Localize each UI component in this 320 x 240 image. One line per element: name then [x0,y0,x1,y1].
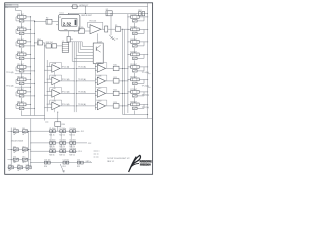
svg-text:R43 1k: R43 1k [69,134,75,136]
wire stage 2 left stub [16,28,18,30]
op-amp U3A [52,65,60,73]
wire R5 to bus [121,28,128,30]
wire right spine segment 10 [134,35,136,40]
wire bottom row 3 [31,150,78,152]
diode D15 [22,158,27,161]
resistor network RN2 [46,44,51,48]
wire U1 bottom pin [68,31,70,37]
op-amp U3C [52,90,60,98]
wire right spine segment 11 [134,48,136,53]
wire stage 13 right loop [137,70,144,72]
capacitor C8 pair [50,150,53,153]
wire chain spine segment 6 [20,85,22,90]
wire stage 6 left stub [16,78,18,80]
svg-text:D11: D11 [22,128,25,130]
wire stage 3 lower tap [24,45,34,47]
wire stage 16 to right bus [139,103,148,105]
wire left chain bottom [20,110,22,115]
svg-text:C8 100n: C8 100n [49,148,55,150]
svg-text:C1 100n: C1 100n [49,128,55,130]
wire stage 15 to right bus [139,91,148,93]
zener D3 diagonal [109,35,115,41]
capacitor C10 [8,166,13,169]
wire mid vertical [110,14,112,35]
svg-text:D10: D10 [13,128,16,130]
wire chain spine segment 2 [20,35,22,40]
wire stage 1 left stub [16,16,18,18]
wire U2A out [108,28,116,30]
wire U4C fb [96,87,107,89]
svg-text:xxxx: xxxx [64,29,68,31]
svg-text:C3 100n: C3 100n [69,128,75,130]
wire R30 down [57,126,59,131]
wire rail drop [85,7,87,14]
svg-text:GND x: GND x [86,161,91,163]
resistor R22 [113,91,119,95]
svg-text:C12: C12 [26,164,29,166]
wire row bl1 [8,130,31,132]
svg-text:TP-3 (A): TP-3 (A) [6,71,14,74]
wire U3B out [60,80,74,82]
wire section divider [5,118,153,120]
wire R2 left [35,21,46,23]
svg-text:xxx xx: xxx xx [94,154,99,156]
svg-text:D2: D2 [106,9,108,11]
wire U4C in+ [96,91,98,93]
wire R3 to J1 [68,41,70,44]
wire R21 to chain [119,80,128,82]
wire R2 to U1 [52,21,58,23]
logo wordmark [139,160,151,162]
svg-text:U1 xx: U1 xx [60,12,64,14]
wire U1 top pin [68,14,70,15]
wire feed right row 2 [76,80,95,82]
wire stage 11 to right bus [139,41,148,43]
wire row bl2 [8,149,31,151]
resistor R20 [113,66,119,70]
wire stage 2 lower tap [24,32,34,34]
svg-text:Sxxxxxxx: Sxxxxxxx [6,5,13,7]
wire stage 16 left stub [128,103,131,105]
svg-text:R2: R2 [46,18,48,20]
wire stage 1 to left bus [26,16,31,18]
wire U4A in- [96,69,98,71]
wire stage 12 right loop [137,57,144,59]
wire U3C feedback [50,87,62,89]
wire stage 5 left stub [16,66,18,68]
svg-text:1N: 1N [22,134,24,136]
wire U3D out [60,105,74,107]
wire harness drop B [75,55,77,112]
svg-text:TP-31 (A): TP-31 (A) [78,66,86,69]
wire U3C out [60,92,74,94]
logo mark [129,155,141,172]
wire right spine segment 14 [134,85,136,90]
wire U3D feedback [50,99,62,101]
wire stage 3 left stub [16,41,18,43]
wire U3B feedback [50,74,62,76]
op-amp U3D [52,102,60,110]
svg-text:RN2 2k2: RN2 2k2 [46,42,53,44]
svg-text:D15: D15 [22,157,25,159]
wire stage 10 right loop [137,32,144,34]
wire chain spine segment 1 [20,23,22,28]
svg-text:J1: J1 [62,41,64,43]
svg-text:1N: 1N [13,162,15,164]
wire stage 11 right loop [137,45,144,47]
wire U4A fb [96,62,107,64]
wire U3A out [60,67,74,69]
wire stage 9 right loop [137,20,144,22]
svg-text:C6 100n: C6 100n [69,140,75,142]
wire stage 12 to right bus [139,53,148,55]
svg-text:5CCW 11.04-1B SHT 1/2: 5CCW 11.04-1B SHT 1/2 [107,158,130,160]
svg-text:C9 100n: C9 100n [59,148,65,150]
diode D14 [13,158,18,161]
svg-text:TP-16(A): TP-16(A) [142,93,150,96]
wire row2-row3 links [50,144,52,150]
diode D13 [22,148,27,151]
wire R22 to chain [119,92,128,94]
svg-text:1N: 1N [26,170,28,172]
wire U4B out [106,80,114,82]
resistor R5 [115,27,121,31]
diode D2 on top net [106,11,112,16]
svg-text:R50: R50 [44,166,47,168]
wire stage 7 lower tap [24,95,34,97]
op-amp U4C [97,90,105,98]
wire U4D in+ [96,103,98,105]
wire R20 to chain [119,67,128,69]
svg-text:Q17: Q17 [98,41,102,43]
ground symbol [60,164,64,173]
wire stage 10 to right bus [139,28,148,30]
wire U3A feedback [50,62,62,64]
wire U3B in- [45,82,52,84]
svg-text:xxxxx x: xxxxx x [94,151,100,153]
capacitor C13 pair [44,161,47,164]
svg-text:R42 1k: R42 1k [59,134,65,136]
svg-text:R51: R51 [63,166,66,168]
wire stage 7 to left bus [26,91,31,93]
svg-text:R20: R20 [113,64,116,66]
svg-text:RV1: RV1 [138,10,141,12]
wire U4D in- [96,107,98,109]
wire U4A in+ [96,66,98,68]
wire U2A feedback [88,21,103,23]
svg-text:R23: R23 [113,102,116,104]
wire U3B bottom tap [54,84,56,88]
svg-text:D12: D12 [13,146,16,148]
wire U4C in- [96,94,98,96]
wire stage 11 left stub [128,41,131,43]
svg-text:TP-32 (A): TP-32 (A) [78,78,86,81]
svg-text:C15: C15 [77,159,80,161]
svg-text:J2-2: J2-2 [88,143,92,145]
wire RN2 right [57,45,63,47]
wire stage 3 to left bus [26,41,31,43]
diode D10 [13,130,18,133]
wire stage 2 to left bus [26,28,31,30]
svg-text:C11: C11 [17,164,20,166]
wire stage 8 lower tap [24,107,34,109]
diode D11 [22,130,27,133]
wire row bl4 [8,167,31,169]
wire harness drop A [73,58,75,112]
wire row1-row2 links [50,133,52,142]
wire right spine segment 13 [134,73,136,78]
wire stage 12 left stub [128,53,131,55]
wire bottom row 1 [31,130,80,132]
wire stage 4 to left bus [26,53,31,55]
wire U2A to module [97,33,99,43]
svg-text:xxxx: xxxx [45,121,49,123]
wire stage 4 lower tap [24,57,34,59]
wire right spine segment 12 [134,60,136,65]
svg-text:R48 1k: R48 1k [49,154,55,156]
wire U4C out [106,92,114,94]
IC module U1 [58,15,80,31]
op-amp U4B [97,77,105,85]
svg-text:C4 100n: C4 100n [49,140,55,142]
wire right inner bus [147,3,149,119]
wire stage 8 to left bus [26,103,31,105]
wire stage 5 lower tap [24,70,34,72]
wire U3C in+ [47,91,52,93]
wire U4D fb [96,99,107,101]
border frame [5,3,153,175]
wire right chain bus [127,14,129,113]
wire left bus B [34,21,36,116]
wire chain spine segment 3 [20,48,22,53]
wire stage 7 left stub [16,91,18,93]
wire feed right row 1 [76,67,95,69]
svg-text:C5 100n: C5 100n [59,140,65,142]
wire U3A in- [45,69,52,71]
svg-text:LM7805CT: LM7805CT [79,5,89,7]
wire row bl3 [8,159,31,161]
wire drop to bottom [57,112,59,122]
connector J1 [62,43,68,53]
svg-text:R41 1k: R41 1k [49,134,55,136]
diode D12 [13,148,18,151]
capacitor C20 output [105,26,108,32]
op-amp U4A [97,65,105,73]
capacitor C5 pair [60,142,63,145]
svg-text:R3: R3 [71,39,73,41]
node TP-4 stub [15,86,31,88]
wire U3C in- [45,94,52,96]
wire bottom bus left [30,119,32,168]
wire stage 6 lower tap [24,82,34,84]
capacitor C9 pair [60,150,63,153]
wire Q17 bottom [97,63,99,65]
op-amp U4D [97,102,105,110]
svg-text:xx xxx: xx xxx [94,157,99,159]
wire RN1 link [35,42,38,44]
wire stage 13 to right bus [139,66,148,68]
wire stage 9 to right bus [139,16,148,18]
wire R23 to chain [119,105,128,107]
wire U3C bottom tap [54,96,56,100]
resistor R2 pre-regulator [46,19,52,24]
wire R4 in [74,30,78,32]
wire chain spine segment 4 [20,60,22,65]
svg-text:1N: 1N [22,152,24,154]
svg-text:1N: 1N [13,152,15,154]
svg-text:AIRBORNE: AIRBORNE [140,160,153,163]
svg-text:1N: 1N [22,162,24,164]
capacitor C2 pair [60,130,63,133]
op-amp U2A [90,25,101,34]
wire right chain bottom [134,110,136,114]
svg-text:TP-14 (A): TP-14 (A) [62,103,70,106]
svg-text:R21: R21 [113,77,116,79]
wire stage 15 left stub [128,91,131,93]
capacitor C6 pair [70,142,73,145]
wire stage 14 left stub [128,78,131,80]
wire bottom row 4 [31,162,92,164]
svg-text:C14 10n: C14 10n [63,159,69,161]
svg-text:C9 100n: C9 100n [69,148,75,150]
resistor R23 [113,104,119,108]
wire stage 6 to left bus [26,78,31,80]
wire stage 8 left stub [16,103,18,105]
capacitor C3 pair [70,130,73,133]
svg-text:1N4148 1N4148: 1N4148 1N4148 [11,140,23,142]
svg-text:TP-11 (A): TP-11 (A) [62,66,70,69]
capacitor C14 pair [63,161,66,164]
svg-text:FREEDOM: FREEDOM [140,165,151,167]
wire stage 1 lower tap [24,20,34,22]
wire U3D bottom tap [54,109,56,113]
wire right spine segment 9 [134,23,136,28]
wire feed right row 3 [76,92,95,94]
wire stage 14 right loop [137,82,144,84]
svg-text:TP-4 (A): TP-4 (A) [6,85,14,88]
svg-text:RN1: RN1 [37,39,41,41]
wire feed right row 4 [76,105,95,107]
wire bottom-left bus [10,128,12,168]
svg-text:TP-17(A): TP-17(A) [142,106,150,109]
wire stage 5 to left bus [26,66,31,68]
svg-text:TP-34 (A): TP-34 (A) [78,103,86,106]
capacitor C15 pair [77,161,80,164]
wire bottom-left bus2 [28,131,30,167]
wire stage 9 left stub [128,16,131,18]
wire bus vertical right-mid [122,29,124,114]
wire opamp input bus B [46,60,48,112]
wire stage 10 left stub [128,28,131,30]
wire U4B in- [96,82,98,84]
svg-text:C2 100n: C2 100n [59,128,65,130]
svg-text:2.32: 2.32 [63,21,72,26]
wire harness feed [69,41,83,43]
wire U4B in+ [96,78,98,80]
op-amp U3B [52,77,60,85]
capacitor C1 pair [50,130,53,133]
wire stage 15 right loop [137,95,144,97]
svg-text:R49 1k: R49 1k [59,154,65,156]
wire U4A out [106,67,114,69]
varistor RV1 [139,12,142,16]
svg-text:R22: R22 [113,89,116,91]
svg-text:TP-13 (A): TP-13 (A) [62,91,70,94]
fuse F1 on rail [72,5,77,8]
svg-text:C10: C10 [8,164,11,166]
node TP-3 stub [15,73,31,75]
wire chain spine segment 7 [20,98,22,103]
svg-text:D3: D3 [116,39,118,41]
svg-text:U1: U1 [59,17,61,19]
wire bottom row 2 [31,142,87,144]
wire right spine segment 15 [134,98,136,103]
svg-text:1N4148 SMT: 1N4148 SMT [81,15,93,17]
capacitor C11 [17,166,22,169]
wire stage 4 left stub [16,53,18,55]
wire stage 13 left stub [128,66,131,68]
resistor R4 [78,29,84,33]
title table top-left [5,4,18,8]
wire R4 out [85,30,90,32]
svg-text:C13 10n: C13 10n [44,159,50,161]
resistor R3 [67,36,70,42]
svg-text:D13: D13 [22,146,25,148]
wire top net [69,13,148,15]
svg-text:D14: D14 [13,157,16,159]
wire top power rail [5,6,148,8]
wire opamp input bus A [44,46,46,121]
svg-text:R52: R52 [77,166,80,168]
svg-text:TP-12 (A): TP-12 (A) [62,78,70,81]
wire U4B fb [96,74,107,76]
svg-text:J2-1: J2-1 [81,131,85,133]
wire from title block [15,8,17,11]
wire U3D in+ [47,103,52,105]
wire U3A bottom tap [54,71,56,75]
resistor network RN1 [38,41,43,45]
wire left bus A [30,16,32,116]
capacitor C9b pair [70,150,73,153]
svg-text:R5: R5 [115,25,117,27]
svg-text:R49 1k: R49 1k [69,154,75,156]
svg-text:1N: 1N [13,134,15,136]
svg-text:J2-3: J2-3 [78,151,82,153]
wire U4D out [106,105,114,107]
transistor module Q17 [93,43,103,63]
svg-text:TP-33 (A): TP-33 (A) [78,91,86,94]
svg-text:1N: 1N [8,170,10,172]
wire chain spine segment 5 [20,73,22,78]
svg-text:R30: R30 [62,124,65,126]
wire bus vertical right-mid B [123,29,125,114]
wire U3A in+ [47,66,52,68]
capacitor C12 [26,166,31,169]
svg-text:REV 1.2: REV 1.2 [107,161,114,163]
wire stage 16 right loop [137,107,144,109]
svg-text:R4 10k: R4 10k [78,27,84,29]
resistor R21 [113,79,119,83]
wire stage 14 to right bus [139,78,148,80]
wire harness to Q17 module [71,42,73,62]
wire opamp right input bus [95,64,97,110]
svg-text:1N: 1N [17,170,19,172]
svg-text:Rxx: Rxx [6,7,9,9]
wire U3D in- [45,107,52,109]
capacitor C4 pair [50,142,53,145]
resistor R30 [55,122,61,127]
wire U3B in+ [47,78,52,80]
